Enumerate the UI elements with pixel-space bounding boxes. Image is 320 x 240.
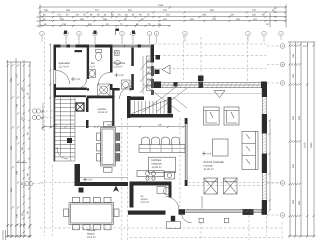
- window hatching: [162, 82, 266, 212]
- left inner dim line x43: [42, 103, 44, 131]
- axis bubble 8: [154, 31, 159, 36]
- wc room north wall: [130, 182, 172, 186]
- wc toilet: [96, 50, 102, 53]
- stair flight 1 steps: [55, 100, 75, 157]
- svg-text:15,59 m²: 15,59 m²: [98, 111, 108, 114]
- north wall chunks: [54, 45, 61, 48]
- island chair top: [104, 122, 113, 127]
- svg-text:3,75: 3,75: [90, 66, 96, 69]
- chairs below circles: [137, 171, 164, 177]
- axis A vertical dashed: [44, 37, 46, 236]
- living north wall pier left: [154, 82, 161, 89]
- top dim ticks: [39, 6, 287, 27]
- stair hall west wall: [54, 98, 55, 162]
- svg-text:kupaona: kupaona: [114, 61, 126, 65]
- section triangle left: [162, 65, 170, 74]
- L sofa right: [242, 131, 258, 169]
- axis bubble 5: [120, 31, 125, 36]
- terrace chairs bottom: [73, 225, 80, 230]
- svg-text:185: 185: [292, 73, 295, 78]
- axis bubble 9: [183, 31, 188, 36]
- east wall chunk3: [262, 154, 267, 174]
- stair flight 2 break line: [132, 100, 168, 114]
- mid block west wall: [127, 96, 131, 118]
- stove appliance: [165, 172, 175, 180]
- svg-text:156: 156: [16, 213, 19, 218]
- bedroom terrace door arc: [56, 71, 70, 85]
- right dim tick clusters: [289, 44, 315, 237]
- bedroom inner door arc: [77, 79, 86, 88]
- interior wall kitchen-terrace: [75, 182, 129, 186]
- svg-text:148: 148: [16, 135, 19, 140]
- shaft dark square: [76, 103, 84, 111]
- top dim right terminator: [285, 5, 287, 28]
- wc east wall: [110, 48, 113, 73]
- stair north wall strip: [54, 95, 87, 97]
- wc2 sink: [157, 187, 166, 194]
- window band living north: [161, 81, 261, 83]
- top-right small dim text stack: [266, 7, 277, 26]
- column at terrace wall: [79, 188, 84, 193]
- living north wall pier mid: [199, 82, 204, 89]
- top dim line row4: [40, 20, 286, 22]
- axis bubble 3: [77, 31, 82, 36]
- svg-text:0,00: 0,00: [88, 179, 93, 182]
- window wc north: [89, 44, 95, 46]
- svg-text:0,00: 0,00: [207, 153, 212, 156]
- armchair bottom 2: [224, 178, 238, 194]
- svg-text:570: 570: [292, 115, 295, 120]
- east wall chunk1: [262, 82, 267, 98]
- sofa top 1: [204, 107, 220, 125]
- axis bubble 7: [147, 31, 152, 36]
- top dim inner right terminator: [269, 13, 271, 27]
- top dim line row2: [40, 11, 286, 13]
- entry dark marker: [171, 216, 175, 222]
- dining chairs arc row: [142, 137, 150, 145]
- kitchen counter band: [139, 145, 185, 153]
- kitchen west wall lower: [86, 120, 89, 128]
- right axis bubbles: [280, 44, 285, 218]
- bedroom lintel marker: [75, 50, 83, 52]
- column on roof line 2: [155, 70, 160, 75]
- svg-text:C: C: [282, 82, 284, 85]
- svg-text:kuhinja: kuhinja: [152, 158, 162, 162]
- south wall chunk wc-room: [128, 211, 166, 215]
- axis bubble 4: [93, 31, 98, 36]
- window hall north: [141, 44, 151, 46]
- svg-text:136: 136: [16, 103, 19, 108]
- svg-text:1910: 1910: [304, 142, 307, 148]
- outdoor marker 1: [199, 218, 204, 223]
- mid block top wall: [127, 97, 144, 101]
- sofa top 2: [224, 107, 239, 125]
- svg-text:terasa: terasa: [87, 228, 96, 232]
- axis bubble 6: [131, 31, 136, 36]
- terrace chairs top: [73, 197, 80, 202]
- svg-text:12,74 m²: 12,74 m²: [59, 66, 69, 69]
- survey flag on top wall: [116, 29, 120, 36]
- window east band2: [262, 134, 264, 154]
- washing machine: [122, 80, 131, 89]
- interior wall vertical pier: [75, 164, 81, 182]
- axis vertical dashed x133: [132, 37, 134, 44]
- wc2 toilet: [164, 187, 170, 195]
- svg-text:575: 575: [298, 115, 301, 120]
- living north wall corner right: [261, 82, 267, 89]
- svg-text:spavaća: spavaća: [59, 61, 71, 65]
- stair stringer line: [60, 98, 62, 156]
- west wall chunks: [54, 45, 57, 71]
- svg-text:D: D: [282, 182, 284, 185]
- axis vertical dashed x201: [200, 37, 202, 75]
- kitchen island table: [101, 128, 116, 167]
- axis bubble 1: [40, 31, 45, 36]
- bath sink: [115, 60, 121, 64]
- night block east wall: [151, 45, 155, 63]
- roof overhang dashed top: [154, 43, 267, 45]
- wc room door arc: [166, 197, 180, 211]
- axis bubble 11: [262, 31, 267, 36]
- roof overhang dashed mid: [154, 55, 267, 57]
- window east band3: [262, 173, 264, 200]
- svg-text:330: 330: [298, 200, 301, 205]
- island chair bottom: [104, 167, 113, 172]
- left axis stub dashes: [41, 110, 53, 112]
- top dim line row5: [40, 25, 170, 27]
- left end tick cluster: [37, 16, 44, 27]
- axis bubble 2: [64, 31, 69, 36]
- marker square on living wall line: [174, 83, 178, 87]
- wc room west wall: [130, 186, 134, 208]
- kitchen-living divider wall: [184, 118, 187, 186]
- left dim end tick clusters: [7, 224, 32, 237]
- terrace chair left: [64, 209, 69, 217]
- south wall corner right: [262, 209, 268, 215]
- armchair bottom 1: [204, 178, 218, 194]
- wc room east wall: [169, 186, 172, 198]
- svg-text:293: 293: [10, 77, 13, 82]
- svg-text:dnevni boravak: dnevni boravak: [204, 160, 225, 164]
- mid block south wall: [127, 114, 173, 118]
- closet boxes: [147, 56, 153, 61]
- bubble stubs: [42, 36, 281, 44]
- svg-text:320: 320: [292, 199, 295, 204]
- entry door arc outside: [182, 213, 192, 223]
- kupaonica east wall: [131, 48, 134, 67]
- lamp stub line: [201, 196, 203, 209]
- axis vertical dashed x180: [179, 118, 181, 207]
- axis vertical dashed x66: [65, 37, 67, 44]
- outdoor marker 2: [224, 218, 229, 223]
- axis bubble 10: [246, 31, 251, 36]
- svg-text:0,00: 0,00: [76, 78, 81, 81]
- stair flight 2 steps: [135, 101, 165, 114]
- kitchen island: [148, 157, 175, 173]
- svg-text:5,06 m²: 5,06 m²: [141, 201, 150, 204]
- svg-text:31,05 m²: 31,05 m²: [204, 168, 214, 171]
- window bedroom north 1: [61, 44, 67, 46]
- island chairs left: [97, 133, 101, 141]
- svg-text:21,6 m²: 21,6 m²: [87, 236, 96, 239]
- axis vertical dashed x149.5: [149, 37, 151, 44]
- bottom dashed line: [40, 227, 281, 229]
- stair flight 1 sides: [54, 98, 56, 162]
- east wall chunk2: [262, 114, 267, 134]
- corridor east wall: [112, 90, 114, 126]
- svg-text:372: 372: [10, 145, 13, 150]
- terrace chair right: [114, 209, 119, 217]
- svg-text:2060: 2060: [310, 142, 313, 148]
- living dashed axis horizontal: [188, 182, 281, 184]
- svg-text:361: 361: [10, 187, 13, 192]
- hall door arc: [120, 87, 133, 100]
- section triangle down: [214, 91, 225, 98]
- stair landing marker: [67, 138, 72, 143]
- stair walk-line arrow: [57, 147, 68, 159]
- wc door arc: [99, 73, 111, 85]
- top dim left terminator: [39, 5, 41, 28]
- bottom-left corner marks: [3, 230, 6, 240]
- top dim line row3: [40, 16, 286, 18]
- right wall overhang dashed: [266, 212, 268, 237]
- section flag markers above wall: [64, 31, 135, 35]
- top dim numbers: [43, 4, 275, 26]
- west door opening lines: [53, 70, 55, 84]
- left dim ticks: [7, 64, 31, 237]
- axis bubble 12: [279, 31, 284, 36]
- axis vertical dashed x79: [78, 37, 80, 44]
- night block south wall: [54, 88, 87, 91]
- mid block east wall: [168, 97, 172, 114]
- svg-text:2340: 2340: [158, 4, 164, 7]
- kitchen west wall upper: [86, 98, 89, 113]
- column on roof line 1: [156, 55, 161, 60]
- top dim line row1: [40, 6, 286, 8]
- kupaonica south wall: [113, 88, 120, 91]
- svg-text:wc: wc: [91, 61, 95, 65]
- svg-text:5,29 m²: 5,29 m²: [114, 66, 123, 69]
- shower cabin: [98, 84, 111, 96]
- svg-text:425: 425: [292, 163, 295, 168]
- svg-text:0,00: 0,00: [119, 74, 124, 77]
- window east band1: [262, 97, 264, 114]
- axis vertical dashed x247.5: [247, 37, 249, 84]
- axis vertical dashed x185: [183, 36, 185, 82]
- bedroom east wall: [87, 48, 89, 80]
- right bubble stub dashes: [267, 45, 280, 47]
- island chairs right: [116, 133, 120, 141]
- svg-text:13,28 m²: 13,28 m²: [152, 166, 162, 169]
- svg-text:186: 186: [16, 170, 19, 175]
- right dim rotated numbers: [292, 53, 313, 205]
- window band south: [185, 208, 262, 210]
- svg-text:172: 172: [16, 73, 19, 78]
- axis B vertical dashed: [52, 165, 54, 236]
- roof overhang dashed low: [154, 68, 267, 70]
- terrace big table: [69, 203, 114, 225]
- svg-text:185: 185: [292, 53, 295, 58]
- window bath north wide: [113, 44, 138, 46]
- window bedroom north 2: [70, 44, 76, 46]
- axis vertical dashed x95: [94, 37, 96, 44]
- terrace dashed horizontal left: [40, 182, 74, 184]
- left dim rotated numbers: [10, 73, 30, 218]
- wc sink: [89, 70, 96, 78]
- entry step: [167, 222, 181, 229]
- bath drain box: [115, 51, 120, 56]
- column on living wall: [198, 76, 204, 82]
- east wall chunk4: [262, 200, 267, 215]
- axis vertical dashed x126.5: [121, 118, 123, 240]
- left axis bubbles (paired): [25, 109, 41, 186]
- living floor edge line: [155, 92, 263, 94]
- axis vertical dashed x122: [121, 37, 123, 44]
- coffee table: [213, 139, 229, 156]
